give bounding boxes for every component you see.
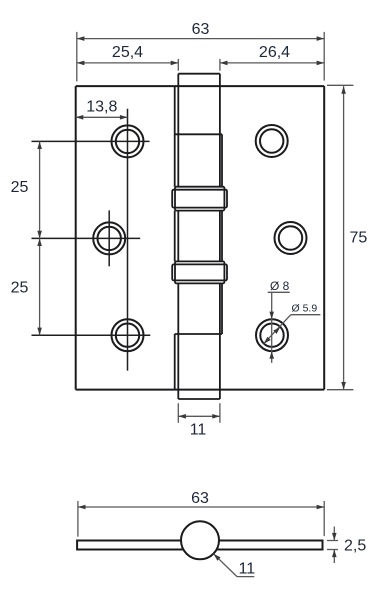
extension line right for 63 and 26,4: [323, 32, 325, 81]
dimension line 63 top: [77, 38, 324, 40]
right knuckle cut edge middle: [221, 211, 223, 262]
svg-text:25,4: 25,4: [112, 44, 143, 61]
dimension line 11: [178, 415, 220, 417]
extension tick 2,5 bottom: [327, 549, 338, 551]
barrel right edge upper: [219, 74, 221, 187]
svg-text:11: 11: [238, 561, 255, 578]
right knuckle cut edge upper: [221, 134, 223, 186]
extension line 11 left: [177, 403, 179, 423]
barrel left edge lower: [177, 283, 179, 399]
leader underline diameter 5.9: [291, 314, 321, 316]
extension line barrel left: [177, 59, 179, 71]
barrel right edge middle: [219, 211, 221, 262]
leaf bottom edge: [76, 389, 325, 391]
extension line barrel right: [219, 59, 221, 71]
dimension line 25 vertical: [39, 141, 41, 335]
arrowhead diameter 5.9 upper: [273, 327, 280, 334]
extension line 75 top: [327, 84, 353, 86]
screw hole middle right outer circle: [275, 222, 307, 254]
barrel left edge upper: [177, 74, 179, 187]
extension line 75 bottom: [327, 389, 353, 391]
screw hole bottom right outer circle: [256, 319, 288, 351]
bearing ring 1 tall rect: [175, 187, 224, 211]
left leaf left edge: [75, 86, 77, 390]
leader line 11 diagonal bottom view: [214, 554, 238, 577]
arrowhead 63 bottom view left: [78, 505, 86, 510]
extension line left for 63 and 25,4: [76, 32, 78, 82]
arrowhead 11 bottom view: [214, 554, 221, 561]
screw hole top right inner circle: [260, 129, 283, 152]
arrowhead diameter 8 bottom: [269, 351, 274, 359]
arrowhead 25 upper bottom: [37, 231, 42, 239]
left knuckle cut edge middle: [174, 211, 176, 262]
arrowhead 25,4 left: [77, 61, 85, 66]
arrowhead 25 lower top: [37, 238, 42, 246]
svg-text:2,5: 2,5: [344, 537, 366, 554]
arrowhead 26,4 left: [220, 61, 228, 66]
arrowhead 25 upper top: [37, 141, 42, 149]
barrel right edge lower: [219, 283, 221, 399]
barrel top edge: [178, 73, 220, 75]
screw hole middle left inner circle: [98, 227, 121, 250]
svg-text:25: 25: [11, 280, 29, 297]
leader line diameter 8 vertical: [271, 292, 273, 363]
svg-text:63: 63: [191, 490, 209, 507]
dimension line 2,5 upper: [333, 527, 335, 541]
bearing ring 2 tall rect: [175, 261, 224, 283]
extension line 11 right: [219, 403, 221, 423]
screw hole bottom left outer circle: [112, 319, 144, 351]
screw hole top left inner circle: [116, 130, 139, 153]
left knuckle cut edge upper: [174, 86, 176, 187]
barrel bottom edge: [178, 398, 220, 400]
centerline vertical through left holes: [127, 109, 129, 371]
arrowhead 2,5 bottom: [332, 550, 337, 558]
centerline hole middle-left horizontal: [32, 237, 141, 239]
screw hole top left outer circle: [112, 125, 144, 157]
knuckle 1 bottom edge: [175, 133, 222, 135]
leader line 11 horizontal bottom view: [237, 576, 254, 578]
svg-text:25: 25: [11, 179, 29, 196]
screw hole top right outer circle: [256, 125, 288, 157]
dimension line 26,4: [220, 62, 324, 64]
arrowhead 13,8 right: [120, 115, 128, 120]
dimension line 63 bottom view: [78, 506, 324, 508]
svg-text:26,4: 26,4: [259, 44, 290, 61]
dimension line 75: [343, 86, 345, 390]
left knuckle cut edge lower: [174, 334, 176, 390]
extension line 63 bottom view right: [323, 501, 325, 536]
screw hole middle left outer circle: [93, 222, 125, 254]
arrowhead 63 right: [317, 36, 325, 41]
centerline hole top-left horizontal: [32, 140, 150, 142]
centerline hole middle-left vertical: [108, 210, 110, 266]
centerline hole bottom-left horizontal: [32, 334, 151, 336]
arrowhead 11 right: [212, 414, 220, 419]
screw hole bottom left inner circle: [116, 324, 139, 347]
leaf top edge: [76, 85, 325, 87]
bottom view leaf bar: [77, 541, 322, 550]
screw hole middle right inner circle: [279, 226, 302, 249]
dimension line 25,4: [77, 62, 179, 64]
arrowhead 75 bottom: [341, 382, 346, 390]
extension line 63 bottom view left: [77, 501, 79, 537]
bearing ring 2 wide rect: [172, 264, 227, 280]
right leaf right edge: [323, 86, 325, 390]
arrowhead 63 bottom view right: [317, 505, 325, 510]
dimension line 2,5 lower: [333, 550, 335, 564]
svg-text:63: 63: [192, 21, 210, 38]
svg-text:Ø 8: Ø 8: [270, 279, 290, 293]
arrowhead 13,8 left: [76, 115, 84, 120]
arrowhead 26,4 right: [317, 61, 325, 66]
arrowhead diameter 8 top: [269, 312, 274, 320]
svg-text:13,8: 13,8: [86, 98, 117, 115]
leader underline diameter 8: [268, 291, 290, 293]
arrowhead 75 top: [341, 86, 346, 94]
svg-text:11: 11: [190, 422, 207, 439]
barrel left edge middle: [177, 211, 179, 262]
arrowhead 11 left: [178, 414, 186, 419]
arrowhead 25 lower bottom: [37, 328, 42, 336]
bottom view barrel circle: [181, 521, 219, 559]
bottom knuckle top edge: [175, 333, 222, 335]
arrowhead 63 left: [77, 36, 85, 41]
dimension line 13,8: [76, 116, 128, 118]
leader line diameter 5.9 diagonal: [264, 315, 291, 344]
arrowhead 25,4 right: [171, 61, 179, 66]
arrowhead 2,5 top: [332, 533, 337, 541]
svg-text:Ø 5.9: Ø 5.9: [292, 303, 318, 315]
bearing ring 1 wide rect: [172, 190, 227, 208]
right knuckle cut edge lower: [221, 283, 223, 334]
svg-text:75: 75: [350, 230, 368, 247]
screw hole bottom right inner circle: [260, 324, 283, 347]
arrowhead diameter 5.9 lower: [264, 337, 271, 344]
extension tick 2,5 top: [327, 540, 338, 542]
